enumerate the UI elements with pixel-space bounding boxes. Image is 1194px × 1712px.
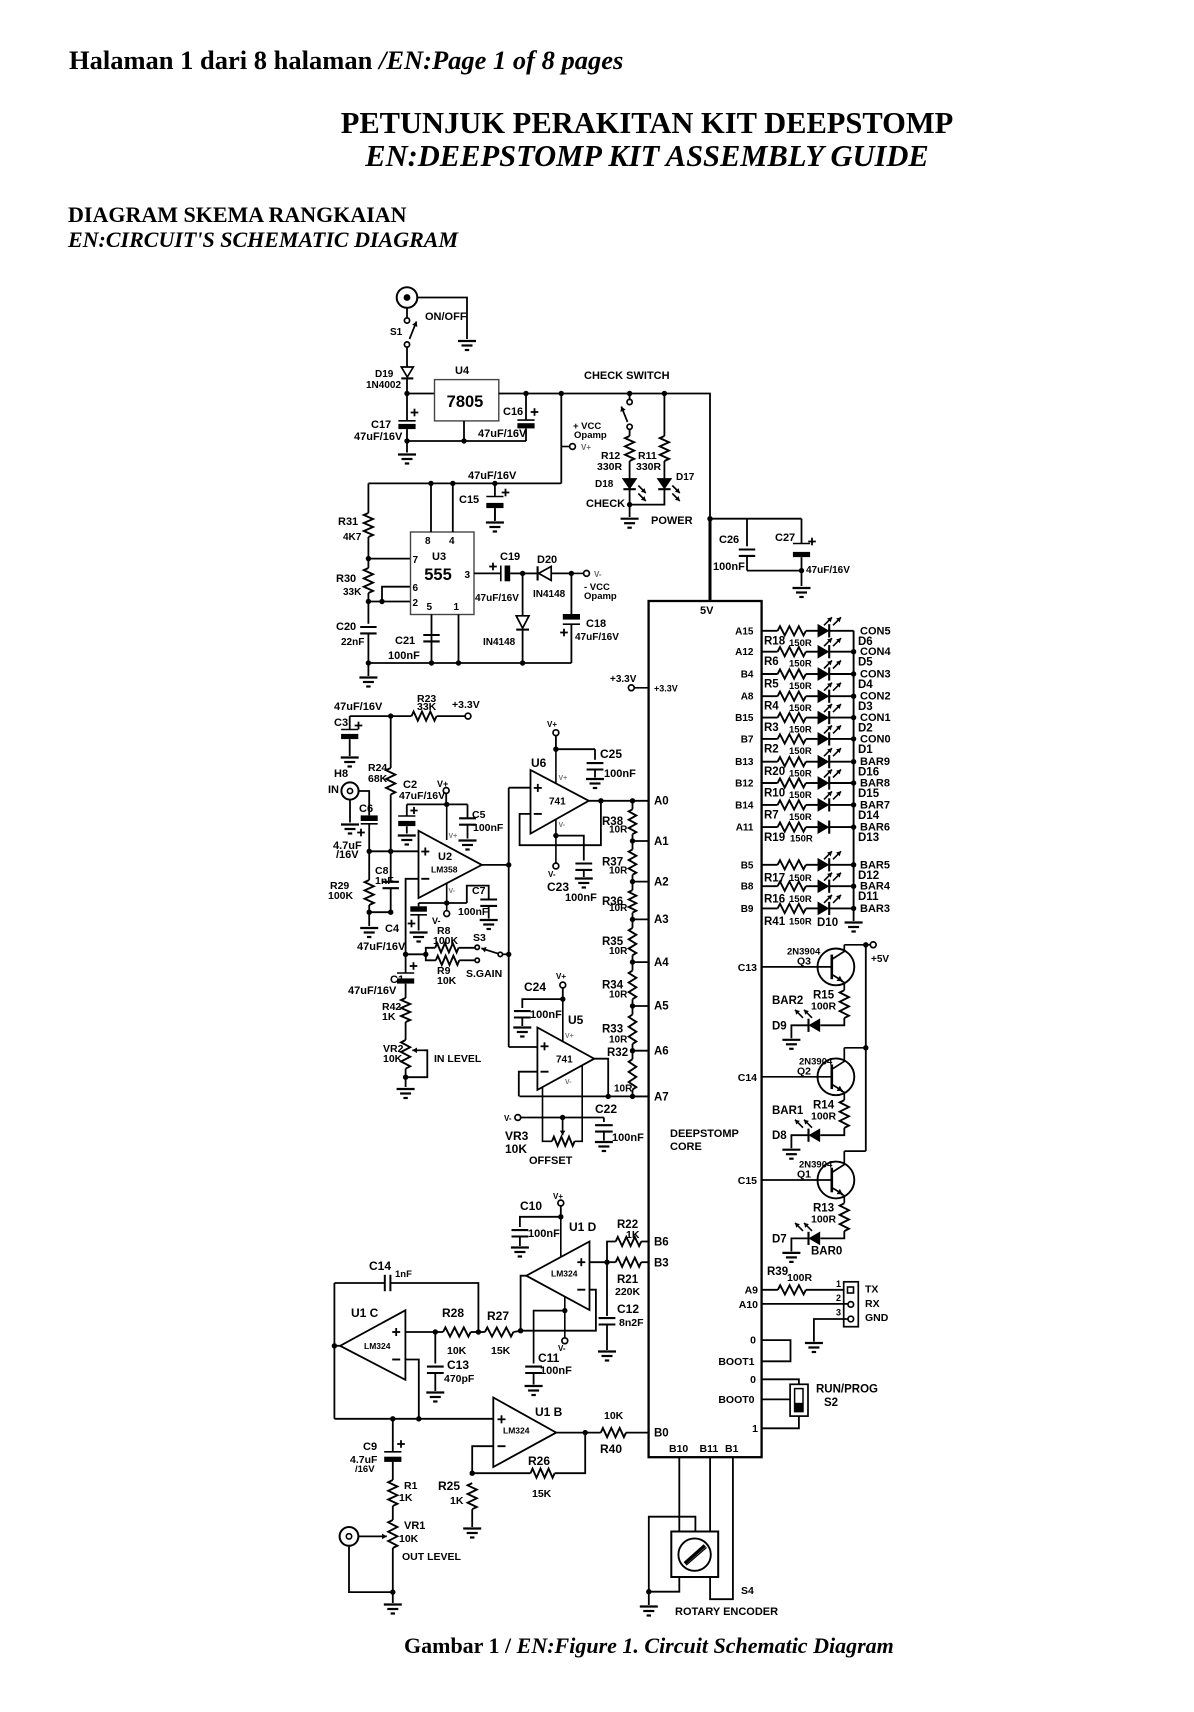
label pin C14: [738, 1072, 757, 1084]
wire to ground encoder: [648, 1592, 650, 1605]
label pin A12: [735, 647, 754, 658]
ground: [359, 678, 377, 687]
svg-text:R5: R5: [764, 679, 779, 691]
capacitor C2: [398, 804, 417, 833]
label R27: [487, 1309, 509, 1323]
terminal V- U6: [548, 836, 559, 879]
capacitor C12: [599, 1262, 616, 1350]
wire pin 7: [368, 558, 410, 560]
svg-text:D7: D7: [772, 1233, 787, 1245]
label VR1: [404, 1520, 425, 1532]
wire VR2 bottom: [405, 1069, 407, 1087]
label pin B4: [741, 670, 754, 681]
svg-text:TX: TX: [865, 1284, 878, 1296]
diode D20: [523, 566, 572, 580]
junction: [444, 900, 449, 905]
wire VR1 bottom: [392, 1548, 394, 1603]
svg-text:CORE: CORE: [670, 1141, 702, 1153]
svg-text:C22: C22: [595, 1102, 617, 1116]
transistor Q2 2N3904: [818, 1048, 855, 1100]
svg-text:POWER: POWER: [651, 515, 693, 527]
label R8: [437, 925, 451, 937]
junction: [404, 438, 409, 443]
LED D5: [818, 638, 841, 658]
label R39: [767, 1266, 788, 1278]
svg-text:V+: V+: [553, 1192, 563, 1201]
svg-text:D18: D18: [595, 479, 614, 490]
label R7 value: [789, 812, 812, 823]
label U6: [531, 756, 547, 770]
label pin A4: [654, 957, 669, 969]
wire pin A6: [633, 1050, 649, 1052]
wire U1B feedback: [472, 1446, 493, 1473]
label 5V pin: [700, 605, 714, 617]
wire gnd rail under U4: [407, 440, 526, 442]
output jack: [340, 1527, 359, 1546]
wire node to ground: [629, 505, 631, 517]
title line 2: [364, 139, 929, 173]
wire 555 bottom rail: [368, 662, 571, 664]
resistor R22: [607, 1237, 649, 1262]
capacitor C8: [383, 851, 399, 912]
wire BAR7: [829, 804, 853, 806]
wire D19 to U4: [406, 379, 408, 394]
svg-text:150R: 150R: [789, 681, 812, 692]
capacitor C14: [334, 1275, 478, 1332]
svg-text:D4: D4: [858, 679, 873, 691]
label DEEPSTOMP: [670, 1128, 739, 1140]
label S4: [741, 1585, 754, 1597]
svg-text:DIAGRAM SKEMA RANGKAIAN: DIAGRAM SKEMA RANGKAIAN: [68, 202, 407, 227]
wire C17 to ground: [406, 441, 408, 453]
svg-text:U5: U5: [568, 1013, 584, 1027]
wire U1D output: [521, 1276, 527, 1331]
label RUN/PROG: [816, 1384, 878, 1396]
label R34: [602, 979, 624, 991]
capacitor C20: [360, 627, 376, 663]
wire R30 to pin2 node: [367, 593, 369, 602]
LED D11: [818, 873, 841, 893]
label Q2 type: [799, 1056, 833, 1067]
svg-text:7: 7: [413, 555, 419, 566]
label C24 value: [530, 1009, 562, 1021]
junction: [433, 1329, 438, 1334]
svg-text:A6: A6: [654, 1046, 669, 1058]
junction: [851, 824, 856, 829]
wire R14 to LED: [820, 1128, 844, 1135]
wire CON1: [829, 717, 853, 719]
svg-text:10R: 10R: [609, 1034, 628, 1045]
svg-text:Q3: Q3: [797, 955, 811, 967]
wire pin A7: [633, 1095, 649, 1097]
wire node to R11: [663, 394, 665, 437]
label R34 value: [609, 990, 628, 1001]
wire R13 to LED: [820, 1231, 844, 1238]
svg-text:C17: C17: [371, 419, 391, 431]
wire U5 output: [594, 1059, 608, 1097]
resistor R36: [629, 882, 637, 920]
label R5 value: [789, 681, 812, 692]
svg-text:A0: A0: [654, 796, 669, 808]
label pin 0 boot0: [750, 1374, 756, 1386]
label C14 value: [395, 1269, 412, 1280]
svg-text:CHECK: CHECK: [586, 498, 625, 510]
ground: [793, 588, 811, 597]
svg-text:R1: R1: [404, 1480, 418, 1492]
label D8: [772, 1130, 787, 1142]
label net BAR7: [860, 799, 890, 811]
resistor R13: [840, 1203, 849, 1231]
svg-text:100K: 100K: [433, 935, 459, 947]
label pin B8: [741, 882, 754, 893]
label net CON2: [860, 691, 891, 703]
svg-text:C12: C12: [617, 1302, 639, 1316]
wire rail to R31: [367, 483, 369, 513]
label R16 value: [789, 894, 812, 905]
svg-text:BAR3: BAR3: [860, 903, 890, 915]
wire BOOT1 strap: [762, 1340, 791, 1361]
wire U1B output: [556, 1432, 601, 1434]
label D18: [595, 479, 614, 490]
svg-text:100nF: 100nF: [528, 1228, 560, 1240]
label R10 value: [789, 790, 812, 801]
label C9 value2: [355, 1464, 375, 1475]
wire V+ vertical: [560, 394, 562, 484]
svg-text:C13: C13: [738, 962, 757, 974]
label R29 value: [328, 890, 354, 902]
wire U5 +input: [509, 1046, 538, 1048]
svg-text:A7: A7: [654, 1092, 669, 1104]
svg-text:C3: C3: [334, 717, 348, 729]
resistor R24: [386, 768, 395, 795]
terminal V- U1D: [558, 1338, 568, 1353]
wire BAR3: [829, 907, 853, 909]
ground: [782, 1253, 800, 1262]
label pin B7: [741, 734, 754, 745]
label R16: [764, 894, 785, 906]
label C24: [524, 980, 546, 994]
wire pin C13: [0, 0, 1, 1]
svg-text:10K: 10K: [447, 1345, 467, 1357]
svg-text:1K: 1K: [382, 1011, 396, 1023]
svg-text:2: 2: [413, 598, 419, 609]
svg-text:PETUNJUK PERAKITAN KIT DEEPSTO: PETUNJUK PERAKITAN KIT DEEPSTOMP: [341, 106, 954, 140]
svg-text:100nF: 100nF: [713, 561, 745, 573]
svg-text:V+: V+: [547, 720, 557, 729]
wire U2 -input down: [406, 879, 419, 955]
LED D14: [818, 791, 841, 811]
pin 1 number: [836, 1279, 841, 1289]
svg-text:1: 1: [836, 1279, 841, 1289]
label C11: [538, 1351, 560, 1365]
label LM324 U1D: [551, 1269, 578, 1279]
LED D4: [818, 661, 841, 681]
pin 5: [427, 602, 433, 663]
svg-text:B14: B14: [735, 800, 754, 811]
pin 7 number: [413, 555, 419, 566]
label H8: [334, 768, 348, 780]
svg-text:VR1: VR1: [404, 1520, 425, 1532]
label C26: [719, 534, 739, 546]
label LM358: [431, 865, 458, 875]
label ROTARY ENCODER: [675, 1606, 778, 1618]
wire U1C -input down: [405, 1360, 418, 1419]
label C18 value: [575, 632, 619, 643]
label net BAR6: [860, 822, 890, 834]
label U5: [568, 1013, 584, 1027]
wire encoder common: [649, 1517, 696, 1592]
svg-text:EN:DEEPSTOMP KIT ASSEMBLY GUID: EN:DEEPSTOMP KIT ASSEMBLY GUIDE: [364, 139, 929, 173]
svg-text:10R: 10R: [609, 990, 628, 1001]
svg-text:R25: R25: [438, 1479, 460, 1493]
svg-text:IN4148: IN4148: [483, 637, 516, 648]
wire to ground R29: [368, 912, 370, 926]
svg-text:R40: R40: [600, 1442, 622, 1456]
svg-text:1N4002: 1N4002: [366, 380, 401, 391]
svg-text:15K: 15K: [532, 1488, 552, 1500]
label pin B1: [725, 1443, 739, 1455]
timer U3 555: [411, 532, 475, 615]
junction: [604, 1260, 609, 1265]
wire C3 to R23: [350, 715, 412, 717]
label pin BOOT0: [718, 1394, 754, 1406]
label C6 value2: [336, 849, 359, 861]
label +5V: [871, 954, 889, 965]
junction: [851, 906, 856, 911]
capacitor C6: [357, 815, 378, 851]
LED D9: [795, 1010, 819, 1032]
label R24: [368, 762, 387, 774]
junction: [560, 996, 565, 1001]
junction: [630, 838, 635, 843]
junction: [851, 884, 856, 889]
wire S.GAIN node: [406, 953, 426, 955]
label IN: [328, 784, 339, 796]
svg-text:OUT LEVEL: OUT LEVEL: [402, 1551, 462, 1563]
ground: [805, 1343, 823, 1352]
junction: [851, 862, 856, 867]
label Q3: [797, 955, 811, 967]
ground: [360, 928, 378, 937]
svg-text:33K: 33K: [417, 701, 437, 713]
svg-text:D13: D13: [858, 832, 879, 844]
ground: [341, 758, 359, 767]
wire BOOT0 pin 0 to S2: [762, 1379, 799, 1384]
terminal V- U2: [432, 911, 450, 926]
label C12 value: [619, 1317, 644, 1329]
svg-text:LM324: LM324: [551, 1269, 578, 1279]
label C22 value: [612, 1132, 644, 1144]
junction: [630, 917, 635, 922]
svg-text:R16: R16: [764, 894, 785, 906]
junction: [558, 1214, 563, 1219]
junction: [583, 1430, 588, 1435]
wire BOOT0 to S2: [762, 1398, 791, 1400]
label R7: [764, 809, 779, 821]
svg-text:BAR0: BAR0: [811, 1245, 842, 1257]
svg-text:Gambar 1 / EN:Figure 1. Circui: Gambar 1 / EN:Figure 1. Circuit Schemati…: [404, 1633, 894, 1658]
label CHECK SWITCH: [584, 370, 670, 382]
junction: [799, 568, 804, 573]
ground: [845, 923, 863, 932]
wire rail to ground: [853, 908, 855, 921]
svg-text:B11: B11: [700, 1443, 719, 1455]
svg-text:47uF/16V: 47uF/16V: [475, 593, 519, 604]
transistor Q3 2N3904: [818, 945, 871, 990]
label U1 D: [569, 1220, 597, 1234]
capacitor C3: [341, 716, 362, 756]
label D20 value: [533, 589, 566, 600]
label U4: [455, 365, 470, 377]
svg-text:10K: 10K: [604, 1410, 624, 1422]
label R36: [602, 896, 623, 908]
wire V- stub U6: [555, 819, 557, 835]
svg-text:GND: GND: [865, 1312, 889, 1324]
capacitor C15: [486, 483, 509, 520]
label pin B13: [735, 757, 754, 768]
label IN LEVEL: [434, 1053, 482, 1065]
label C13 value: [444, 1373, 475, 1385]
label OUT LEVEL: [402, 1551, 462, 1563]
svg-text:+3.3V: +3.3V: [452, 699, 480, 711]
wire D18 cathode: [629, 489, 631, 504]
wire V- stub U1D: [564, 1297, 566, 1338]
svg-text:100R: 100R: [811, 1000, 837, 1012]
LED D6: [818, 617, 841, 637]
label V- inside U6: [559, 822, 566, 829]
label net CON5: [860, 625, 891, 637]
input jack H8: [341, 782, 358, 799]
ground: [513, 1028, 531, 1037]
svg-text:VR3: VR3: [505, 1129, 529, 1143]
label D2: [858, 723, 873, 735]
label pin A3: [654, 914, 669, 926]
terminal V- opamp supply: [571, 571, 589, 577]
label S1: [390, 327, 403, 338]
label R28 value: [447, 1345, 467, 1357]
LED D18 CHECK: [623, 479, 645, 501]
label R37: [602, 857, 623, 869]
svg-text:10R: 10R: [614, 1084, 633, 1095]
label R35 value: [609, 946, 628, 957]
DC input jack: [397, 287, 418, 308]
wire pin A3: [633, 918, 649, 920]
label U1 C: [351, 1306, 379, 1320]
ground: [640, 1607, 658, 1616]
label pin B15: [735, 713, 754, 724]
svg-text:U1 B: U1 B: [535, 1405, 563, 1419]
wire C15 gnd: [494, 508, 496, 521]
capacitor C25: [587, 749, 604, 777]
label R25: [438, 1479, 460, 1493]
label Q1 type: [799, 1160, 833, 1171]
label pin 0 boot1: [750, 1335, 756, 1347]
label V+ inside U5: [565, 1033, 574, 1040]
label D16: [858, 767, 879, 779]
terminal V+ opamp supply: [561, 444, 575, 450]
label VR1 value: [399, 1533, 419, 1545]
svg-text:S1: S1: [390, 327, 403, 338]
wire CON2: [829, 695, 853, 697]
label pin A10: [739, 1299, 758, 1311]
label R26: [528, 1454, 550, 1468]
label R30: [336, 573, 356, 585]
terminal +5V: [870, 942, 876, 948]
junction: [851, 694, 856, 699]
junction: [520, 571, 525, 576]
node 5V rail: [710, 518, 802, 520]
resistor R39: [762, 1285, 844, 1294]
wire V+ stub U6: [555, 736, 557, 750]
resistor R35: [629, 919, 637, 962]
label Q3 type: [787, 946, 821, 957]
wire V+ rail U6: [556, 748, 595, 750]
svg-text:BAR2: BAR2: [772, 995, 803, 1007]
svg-text:1K: 1K: [399, 1492, 413, 1504]
wire node to U4 input: [407, 393, 435, 395]
label 1N4002: [366, 380, 401, 391]
svg-text:D17: D17: [676, 472, 695, 483]
label R3 value: [789, 725, 812, 736]
wire +input rail: [369, 850, 418, 852]
junction: [627, 502, 632, 507]
label +3.3V a: [452, 699, 480, 711]
section heading EN: [67, 227, 459, 252]
svg-text:B0: B0: [654, 1428, 669, 1440]
terminal +3.3V supply: [465, 713, 471, 719]
resistor R37: [629, 841, 637, 882]
junction: [506, 952, 511, 957]
svg-text:4: 4: [449, 536, 455, 547]
junction: [388, 849, 393, 854]
svg-text:B8: B8: [741, 882, 754, 893]
resistor R7: [762, 800, 819, 809]
resistor R19: [762, 823, 819, 832]
label V- inside U5: [565, 1079, 572, 1086]
svg-text:150R: 150R: [789, 703, 812, 714]
potentiometer VR3: [552, 1118, 575, 1146]
label R13 value: [811, 1214, 837, 1226]
wire BAR5: [829, 864, 853, 866]
label R6 value: [789, 659, 812, 670]
capacitor C16: [517, 394, 538, 442]
svg-text:V-: V-: [594, 570, 602, 579]
wire R42 to VR2: [405, 1022, 407, 1040]
svg-text:C24: C24: [524, 980, 546, 994]
wire to ground C27: [801, 571, 803, 586]
wire gnd node: [369, 911, 391, 913]
label D9: [772, 1020, 787, 1032]
LED D10: [818, 895, 841, 915]
label net CON3: [860, 669, 891, 681]
label pin A1: [654, 836, 669, 848]
capacitor C22: [595, 1118, 613, 1141]
junction: [560, 1115, 565, 1120]
label C10: [520, 1199, 542, 1213]
wire U4 gnd pin: [463, 421, 465, 441]
svg-text:100nF: 100nF: [565, 892, 597, 904]
regulator U4 7805: [435, 380, 499, 421]
junction: [518, 1328, 523, 1333]
svg-text:150R: 150R: [789, 873, 812, 884]
svg-text:B3: B3: [654, 1258, 669, 1270]
resistor R9: [426, 954, 475, 965]
ground: [459, 841, 477, 850]
wire base Q3: [762, 966, 832, 968]
svg-text:R31: R31: [338, 516, 358, 528]
op-amp U2: [419, 831, 482, 898]
label C1 value: [348, 985, 397, 997]
